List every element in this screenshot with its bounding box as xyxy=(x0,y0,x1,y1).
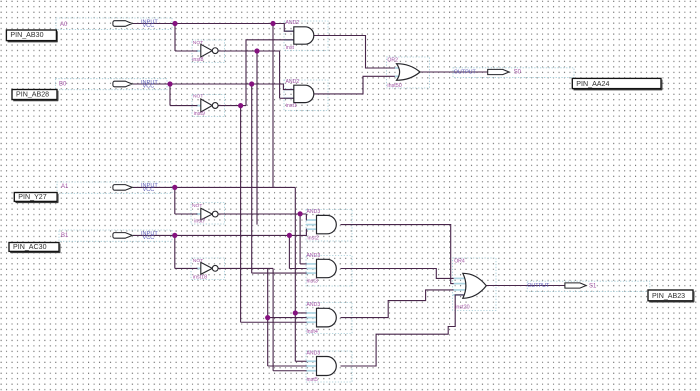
svg-text:VCC: VCC xyxy=(143,235,155,241)
svg-text:inst3: inst3 xyxy=(307,279,318,285)
svg-text:inst2: inst2 xyxy=(308,235,319,241)
svg-text:inst7: inst7 xyxy=(194,218,205,224)
svg-text:NOT: NOT xyxy=(193,93,203,99)
svg-text:inst50: inst50 xyxy=(387,83,401,89)
svg-text:inst20: inst20 xyxy=(455,305,469,311)
svg-text:NOT: NOT xyxy=(193,40,203,46)
svg-text:PIN_AB30: PIN_AB30 xyxy=(10,31,43,39)
svg-text:AND3: AND3 xyxy=(307,302,321,308)
svg-text:inst18: inst18 xyxy=(193,275,207,281)
svg-text:NOT: NOT xyxy=(193,258,203,264)
svg-text:PIN_AA24: PIN_AA24 xyxy=(576,80,609,88)
svg-text:AND3: AND3 xyxy=(307,351,321,357)
svg-text:NOT: NOT xyxy=(192,203,202,209)
svg-text:AND3: AND3 xyxy=(307,253,321,259)
svg-text:PIN_AB28: PIN_AB28 xyxy=(16,90,49,98)
svg-text:inst9: inst9 xyxy=(194,111,205,117)
svg-text:PIN_Y27: PIN_Y27 xyxy=(18,193,46,201)
svg-text:OR2: OR2 xyxy=(387,57,398,63)
svg-text:inst: inst xyxy=(286,45,295,51)
svg-text:VCC: VCC xyxy=(143,23,155,29)
svg-text:S0: S0 xyxy=(514,69,522,75)
svg-text:B1: B1 xyxy=(61,233,69,239)
svg-text:AND3: AND3 xyxy=(307,209,321,215)
svg-text:B0: B0 xyxy=(59,82,67,88)
svg-text:AND2: AND2 xyxy=(286,79,300,85)
svg-text:A0: A0 xyxy=(60,22,68,28)
svg-text:PIN_AB23: PIN_AB23 xyxy=(652,292,685,300)
svg-text:inst8: inst8 xyxy=(192,57,203,63)
svg-text:OR4: OR4 xyxy=(454,258,465,264)
svg-text:inst5: inst5 xyxy=(307,377,318,383)
svg-text:AND2: AND2 xyxy=(286,20,300,26)
svg-text:VCC: VCC xyxy=(143,84,155,90)
svg-text:PIN_AC30: PIN_AC30 xyxy=(13,243,47,251)
svg-text:OUTPUT: OUTPUT xyxy=(527,283,550,289)
svg-text:inst4: inst4 xyxy=(307,329,318,335)
svg-text:inst1: inst1 xyxy=(286,103,297,109)
svg-text:OUTPUT: OUTPUT xyxy=(454,69,477,75)
svg-text:VCC: VCC xyxy=(143,187,155,193)
svg-text:S1: S1 xyxy=(589,284,597,290)
svg-text:A1: A1 xyxy=(61,184,69,190)
